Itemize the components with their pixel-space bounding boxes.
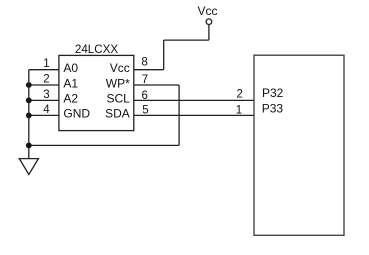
svg-text:2: 2 (236, 88, 242, 100)
svg-text:1: 1 (43, 58, 49, 70)
IC U1 24LCXX body (59, 55, 134, 130)
svg-text:A0: A0 (63, 61, 78, 75)
wire pin1 A0 (29, 69, 59, 71)
svg-text:6: 6 (142, 90, 148, 102)
wire pin5 SDA to P33 (134, 114, 254, 116)
wire pin8 horizontal to Vcc stem (164, 39, 209, 41)
wire pin7 return to ground bus (29, 144, 179, 146)
ground symbol triangle (19, 159, 38, 175)
microcontroller U2 body (254, 55, 344, 235)
wire pin6 SCL to P32 (134, 99, 254, 101)
svg-text:Vcc: Vcc (198, 4, 218, 18)
svg-text:A1: A1 (63, 76, 78, 90)
wire pin3 A2 (29, 99, 59, 101)
wire pin2 A1 (29, 84, 59, 86)
wire pin8 to Vcc: horizontal from IC (134, 69, 164, 71)
svg-text:SDA: SDA (105, 107, 130, 121)
wire pin7 vertical down (178, 85, 180, 145)
wire Vcc stem vertical (208, 25, 210, 40)
svg-text:2: 2 (43, 74, 49, 86)
svg-text:24LCXX: 24LCXX (75, 43, 118, 56)
wire pin4 GND (29, 114, 59, 116)
wire pin8 vertical up (163, 40, 165, 70)
ground bus vertical (28, 70, 30, 159)
svg-text:3: 3 (43, 89, 49, 101)
svg-text:P33: P33 (262, 102, 284, 116)
junction dot pin2 (26, 82, 32, 88)
svg-text:P32: P32 (262, 86, 284, 100)
svg-text:7: 7 (142, 74, 148, 86)
svg-text:5: 5 (142, 105, 148, 117)
svg-text:SCL: SCL (106, 92, 130, 106)
junction dot pin4 (26, 113, 32, 119)
svg-text:Vcc: Vcc (110, 61, 130, 75)
svg-text:WP*: WP* (106, 76, 130, 90)
Vcc terminal circle (206, 19, 212, 25)
junction dot ground node (26, 143, 32, 149)
wire pin7 WP* horizontal (134, 84, 179, 86)
junction dot pin3 (26, 98, 32, 104)
svg-text:GND: GND (63, 107, 90, 121)
svg-text:8: 8 (141, 57, 147, 69)
svg-text:1: 1 (236, 104, 242, 116)
svg-text:4: 4 (43, 104, 50, 116)
svg-text:A2: A2 (63, 92, 78, 106)
